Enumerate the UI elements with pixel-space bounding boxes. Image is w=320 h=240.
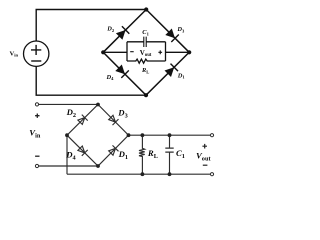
node diamond bottom dot xyxy=(96,164,100,168)
plus sign inside source xyxy=(31,45,41,55)
plus sign input xyxy=(35,114,39,118)
diode D1 cathode bar xyxy=(113,145,119,151)
node RL top dot xyxy=(141,133,145,137)
wire source top to diamond apex xyxy=(36,10,146,42)
diode D2 cathode bar xyxy=(82,115,88,121)
capacitor C1 top branch wires xyxy=(127,41,166,43)
capacitor C1 plates xyxy=(165,148,173,152)
input terminal + (open circle) xyxy=(35,103,38,106)
capacitor C1 plates xyxy=(144,37,146,47)
node C1 top dot xyxy=(168,133,172,137)
output terminal - (open circle) xyxy=(210,173,213,176)
diode D3 triangle xyxy=(165,29,175,39)
node RL bottom dot xyxy=(141,172,145,176)
diode D4 cathode bar xyxy=(121,70,129,78)
voltage source Vs circle xyxy=(24,41,49,66)
diode D1 outline triangle xyxy=(109,148,116,155)
node C1 bottom dot xyxy=(168,172,172,176)
diode D3 cathode bar xyxy=(171,35,179,43)
diamond bridge wires xyxy=(103,10,189,96)
node left vertex dot xyxy=(101,50,105,54)
diode D2 outline triangle xyxy=(78,118,85,125)
diode D2 triangle xyxy=(116,30,126,40)
diode D1 cathode bar xyxy=(171,64,179,72)
wire inner rect to right vertex xyxy=(166,51,190,53)
wire + terminal to diamond top xyxy=(39,103,98,105)
minus sign input xyxy=(35,155,39,157)
plus sign inside rect xyxy=(158,50,162,54)
inner rect right edge xyxy=(165,42,167,61)
node apex dot xyxy=(144,7,148,11)
node diamond right dot xyxy=(127,133,131,137)
diamond bridge wires xyxy=(67,105,129,167)
minus sign output xyxy=(203,164,208,166)
wire - terminal to diamond bottom xyxy=(39,165,98,167)
wire source bottom to diamond bottom vertex xyxy=(36,66,146,95)
diode D4 triangle xyxy=(115,65,125,75)
output terminal + (open circle) xyxy=(210,134,213,137)
diode D3 outline triangle xyxy=(109,115,116,122)
input terminal - (open circle) xyxy=(35,164,38,167)
wire left vertex down xyxy=(66,135,68,174)
diode D2 cathode bar xyxy=(122,26,129,34)
capacitor C1 branch wires xyxy=(169,135,171,174)
node right vertex dot xyxy=(187,50,191,54)
diode D4 outline triangle xyxy=(78,146,85,153)
node bottom vertex dot xyxy=(144,93,148,97)
resistor R1 bottom branch xyxy=(127,59,166,63)
resistor RL branch xyxy=(139,135,145,174)
inner rect left edge xyxy=(126,42,128,61)
diode D1 triangle xyxy=(165,67,175,77)
minus sign inside rect xyxy=(130,51,134,53)
output bottom rail xyxy=(67,173,210,175)
node diamond left dot xyxy=(65,133,69,137)
output top rail xyxy=(129,134,211,136)
plus sign output xyxy=(202,144,207,149)
minus sign inside source xyxy=(31,60,41,62)
diode D3 cathode bar xyxy=(113,119,119,125)
node diamond top dot xyxy=(96,103,100,107)
wire left vertex to inner rect xyxy=(103,51,127,53)
diode D4 cathode bar xyxy=(82,150,88,156)
